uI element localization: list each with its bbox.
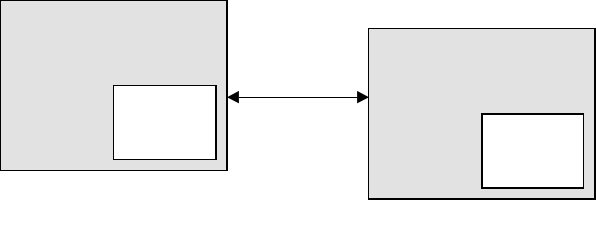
left inner box: [113, 85, 217, 160]
double arrow shaft: [239, 97, 357, 98]
right outer box: [368, 28, 596, 200]
left arrowhead: [227, 91, 239, 104]
right arrowhead: [357, 91, 369, 104]
right inner box: [481, 113, 584, 189]
left outer box: [0, 0, 228, 171]
